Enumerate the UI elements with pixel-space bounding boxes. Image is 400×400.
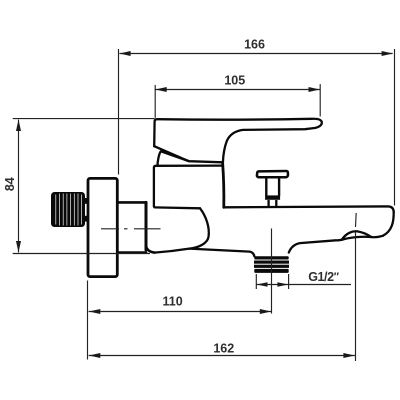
spout bottom left of outlet (189, 249, 254, 257)
cartridge dome slope (157, 151, 188, 165)
dim 105 line (155, 89, 320, 91)
arrow 162 right (343, 353, 355, 358)
cartridge right edge (223, 162, 224, 207)
knob cap slot (259, 173, 286, 175)
diverter knob cap (257, 171, 288, 177)
spout outlet centerline to 162 (355, 213, 358, 361)
arrow 105 right (309, 87, 321, 92)
knob stem collar (265, 195, 280, 199)
ext line right of 105 (319, 84, 321, 116)
ext line left of G1/2 (255, 274, 257, 289)
arrow 162 left (89, 353, 101, 358)
knob neck (269, 200, 277, 207)
arrow 166 right (382, 51, 394, 56)
svg-text:105: 105 (224, 74, 245, 88)
arrow 110 left (89, 309, 101, 314)
outlet lens lower arc (342, 237, 371, 240)
ext line top of 84 (13, 118, 155, 120)
dim 166 line (120, 53, 393, 55)
ext line left of 166 (118, 49, 120, 175)
svg-text:110: 110 (163, 294, 183, 308)
arrow 84 bottom (16, 241, 21, 253)
dimension graphics (13, 49, 395, 361)
arrow 84 top (16, 120, 21, 132)
arrow 110 right (260, 309, 272, 314)
spout bottom mid (289, 240, 342, 253)
step cylinder (118, 202, 155, 252)
ext line right of 166 (394, 49, 396, 206)
arrow 166 left (119, 51, 131, 56)
knob stem (266, 178, 279, 196)
shower outlet thread G1/2 (254, 256, 289, 273)
spout top edge (224, 206, 394, 212)
step cylinder right edge (145, 202, 148, 250)
arrow G1/2 right (277, 282, 288, 287)
wall thread nipple (51, 192, 85, 227)
ext line left of 105 (154, 85, 156, 118)
dim 110 line (89, 311, 272, 313)
lever underside step (154, 146, 222, 162)
dim 162 line (89, 355, 355, 357)
horizontal axis centerline (101, 228, 161, 230)
wall flange (88, 178, 117, 276)
svg-text:166: 166 (244, 37, 265, 51)
cartridge housing (154, 166, 222, 207)
ext line bottom of 84 (13, 253, 150, 255)
body front curve (189, 208, 209, 248)
spout bottom contour right (371, 236, 383, 237)
lever handle (154, 119, 322, 163)
outlet centerline (271, 229, 273, 314)
spout tip right edge (383, 212, 394, 236)
shared left ext line (87, 281, 89, 360)
dim 84 line (18, 120, 20, 253)
svg-text:162: 162 (213, 341, 234, 355)
arrowheads (16, 51, 393, 358)
arrow G1/2 left (257, 282, 268, 287)
ext line right of G1/2 (288, 274, 290, 289)
outlet lens upper arc (342, 231, 371, 240)
arrow 105 left (155, 87, 167, 92)
G1/2 dim line with leader (256, 284, 351, 286)
svg-text:84: 84 (3, 177, 17, 191)
eccentric connector neck (84, 198, 89, 222)
svg-text:G1/2″: G1/2″ (308, 270, 340, 284)
body bottom edge (155, 249, 190, 253)
body ledge top (155, 206, 201, 209)
